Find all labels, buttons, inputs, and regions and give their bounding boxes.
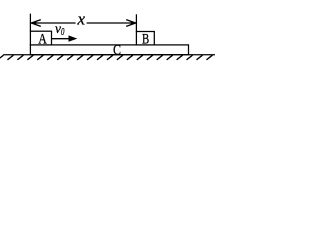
wire: dimension line right segment (87, 22, 137, 24)
block B (136, 32, 154, 45)
svg-text:A: A (38, 31, 47, 47)
wire: right extension line above B (dimension tick at B's left edge) (135, 14, 137, 31)
arrow v0 head (69, 35, 78, 41)
ground hatching (0, 55, 212, 60)
svg-text:C: C (113, 43, 121, 59)
left dimension arrowhead (31, 20, 40, 27)
wire: dimension line left segment (31, 22, 76, 24)
plank C (30, 45, 188, 55)
svg-text:B: B (142, 32, 149, 48)
svg-text:x: x (77, 10, 86, 29)
wire: left extension line above A (dimension tick at A's left edge) (29, 14, 31, 32)
ground line (3, 54, 215, 56)
arrow v0 shaft (52, 38, 71, 40)
block A (30, 31, 51, 45)
right dimension arrowhead (126, 20, 135, 27)
